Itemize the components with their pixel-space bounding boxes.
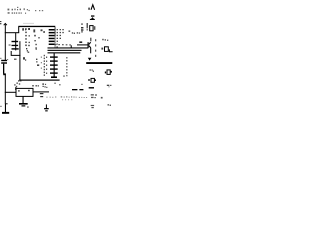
transistor Q1 base bar — [88, 42, 89, 48]
equals marks left of caption — [40, 93, 44, 97]
connector bar 5 — [50, 72, 58, 73]
small text right under R2 area — [107, 85, 112, 88]
capacitor C3 bottom lead dot — [81, 31, 82, 32]
resistor R1 left label bar — [87, 23, 88, 28]
resistor R3 tick — [111, 71, 112, 73]
diode D1 anode bar — [90, 19, 95, 20]
title text block top-left — [8, 7, 44, 14]
relay coil label 2 — [101, 48, 103, 50]
battery BT1 box — [16, 88, 33, 96]
transistor Q1 label — [79, 41, 82, 43]
connector pin column below IC — [54, 53, 55, 77]
connector bar 4 — [50, 68, 58, 69]
IC1 top edge — [18, 26, 55, 27]
wire junction corner — [71, 45, 72, 48]
resistor R2 label text — [90, 69, 95, 72]
supply label (cut off at left edge) — [0, 21, 1, 24]
faint dot above wire dash — [81, 84, 82, 85]
pin dashes left of connector — [46, 57, 47, 74]
wire dash bottom middle — [72, 89, 77, 90]
dotted wire to transistor base — [55, 44, 71, 46]
box corner tick — [15, 87, 16, 90]
dashed relay line — [95, 39, 96, 57]
capacitor C3 plate 2 — [81, 29, 83, 30]
resistor R2 box — [91, 78, 94, 82]
capacitor C3 value text — [77, 32, 80, 34]
diode D1 triangle — [91, 17, 94, 19]
capacitor C1 plate 2 — [1, 62, 7, 63]
left rail lower lead — [5, 104, 6, 113]
junction blob — [3, 73, 6, 75]
V+ rail vertical wire lower — [5, 74, 6, 104]
crystal X1 plate 2 — [12, 48, 19, 49]
capacitor C1 plate 1 — [1, 60, 7, 61]
text cluster above caption left — [42, 83, 47, 88]
dotted column below IC — [44, 55, 45, 76]
transistor Q1 collector stroke — [89, 42, 91, 44]
faint dot near rail — [7, 59, 8, 60]
pin number dots far right — [69, 31, 76, 34]
battery ground bar 2 — [22, 105, 26, 106]
pin label dots inside IC bottom — [36, 59, 39, 66]
junction mark right of wire — [23, 57, 25, 59]
wire battery to right — [33, 91, 49, 92]
V+ rail arrow head — [4, 23, 7, 25]
long wire IC to right 2 — [48, 50, 82, 51]
small dot left of ground — [0, 106, 1, 107]
battery ground bar 1 — [19, 103, 28, 105]
capacitor C3 plate 1 — [81, 27, 83, 28]
left ground bar — [2, 112, 9, 114]
resistor R1 value dots — [94, 26, 95, 30]
crystal label dash — [9, 44, 11, 45]
resistor R3 box — [107, 70, 110, 75]
IC1 right edge — [54, 27, 57, 36]
supply label dash — [88, 8, 90, 10]
IC1 right pin number dots — [57, 29, 64, 48]
battery label above box — [17, 80, 22, 84]
arrow to rail — [88, 58, 92, 61]
bottom right text 2 — [91, 104, 111, 108]
capacitor C1 lower lead — [3, 64, 4, 74]
crystal X1 plate 1 — [12, 41, 19, 42]
caption text bottom — [46, 96, 87, 100]
transistor Q1 emitter stroke — [89, 46, 91, 48]
bar under R2 — [89, 87, 94, 88]
wire corner up to IC top edge — [18, 26, 19, 32]
coil lead wire — [109, 49, 112, 51]
relay K1 coil box — [105, 47, 109, 52]
dots below dashed wire — [54, 75, 64, 85]
connector bar 3 — [50, 64, 58, 65]
left rail junction dot — [6, 103, 7, 104]
collector stub — [89, 38, 92, 42]
diode D1 cathode bar — [91, 15, 94, 16]
long wire IC to right 3 — [48, 52, 81, 53]
battery terminal dot right — [28, 90, 29, 91]
base wire — [77, 44, 88, 45]
connector bar 2 — [50, 60, 58, 61]
faint dot column left — [41, 57, 42, 69]
battery terminal dot left — [18, 90, 19, 91]
bottom right text 1 — [91, 94, 103, 98]
IC1 inner label dots column — [34, 35, 40, 50]
text below ground rail left — [14, 84, 17, 87]
stray dot right of ground — [27, 106, 28, 107]
small dash near capacitor C1 — [14, 59, 17, 60]
emitter wire down — [90, 48, 91, 54]
IC1 right pin name dashes — [49, 29, 55, 45]
battery ground lead — [23, 96, 24, 103]
wire from crystal to ground branch — [11, 51, 20, 55]
resistor R3 lead dot — [105, 72, 106, 74]
wire rail to battery — [5, 92, 16, 93]
long wire IC to right 1 — [48, 47, 89, 48]
IC1 designator text — [22, 28, 35, 32]
V+ rail vertical wire upper — [5, 24, 6, 60]
bottom rail right — [86, 62, 112, 64]
resistor R1 left label dot — [87, 29, 88, 30]
decoupling capacitor C3 top lead dot — [81, 23, 82, 24]
faint dot left of C1 — [0, 58, 1, 59]
supply arrow top right — [91, 5, 95, 10]
text below ground rail right — [32, 85, 39, 87]
ground rail under IC — [19, 80, 59, 81]
IC1 part number text — [41, 29, 46, 32]
IC1 left side pin number dots — [25, 28, 30, 53]
dashed vertical wire mid — [66, 57, 67, 76]
resistor R2 lead dash — [88, 79, 90, 80]
relay K1 label text — [102, 39, 108, 41]
faint smudge above IC top edge — [23, 22, 34, 25]
wire to IC top area — [5, 32, 19, 33]
ground symbol bottom middle — [46, 104, 47, 108]
connector bar 1 — [50, 56, 58, 57]
connector bottom cap bar — [51, 76, 57, 78]
vertical wire to ground rail — [19, 41, 20, 80]
crystal X1 body bar — [12, 45, 19, 46]
resistor R2 tick — [95, 79, 96, 81]
resistor R1 box — [90, 26, 93, 31]
crystal X1 lead — [15, 33, 16, 50]
